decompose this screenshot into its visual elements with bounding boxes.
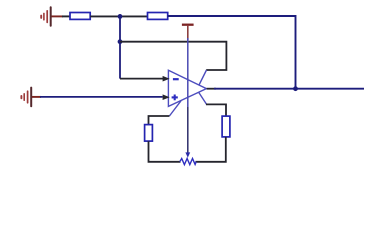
wire R1 to R2 (through node A) — [90, 15, 147, 17]
pin of P1 (red lead) — [52, 15, 64, 17]
wire node B to comp pin of U1 — [120, 42, 226, 70]
output wire to the right — [214, 88, 364, 90]
pin of VCC (red lead down) — [187, 25, 189, 40]
resistor R2 — [148, 13, 168, 20]
node A junction dot — [118, 14, 123, 19]
output node junction dot — [293, 86, 298, 91]
wire P2 to non-inverting input — [40, 96, 163, 98]
wire to inverting input — [120, 78, 164, 80]
U1 plus sign — [172, 95, 178, 101]
potentiometer RP zigzag — [180, 159, 196, 165]
power port VCC (red T) — [182, 24, 194, 26]
op-amp U1 triangle — [168, 70, 206, 106]
power port P1 (signal ground style, input source) — [41, 7, 51, 26]
U1 non-inverting input pin arrow — [163, 94, 170, 100]
U1 inverting input pin arrow — [163, 76, 170, 82]
power port P2 (signal ground style, non-inverting source) — [21, 88, 31, 107]
wire R2 to top-right corner — [168, 16, 296, 89]
potentiometer wiper arrow — [185, 152, 190, 157]
wire R4 bottom to bottom rail — [195, 137, 225, 162]
U1 comp pin diagonal (pin 8) — [199, 70, 207, 85]
wire P1 to R1 — [62, 15, 71, 17]
pin of P2 (red lead) — [32, 96, 41, 98]
U1 minus sign — [173, 78, 179, 80]
U1 V+ / V- power line through body to wiper — [187, 38, 189, 107]
resistor R1 — [70, 13, 90, 20]
U1 output pin lead — [207, 88, 216, 90]
wire node A down to inverting input corner — [119, 16, 121, 78]
node B junction dot — [118, 39, 123, 44]
wire R3 bottom to bottom rail — [149, 141, 181, 162]
wire pin1 to left resistor — [149, 116, 170, 125]
resistor R3 (left lower) — [145, 125, 153, 142]
wire pin5 to right resistor — [206, 104, 226, 116]
U1 offset pin diagonal (pin 5) — [199, 93, 207, 105]
resistor R4 (right lower) — [222, 116, 230, 137]
U1 offset pin diagonal (pin 1) — [169, 101, 181, 116]
